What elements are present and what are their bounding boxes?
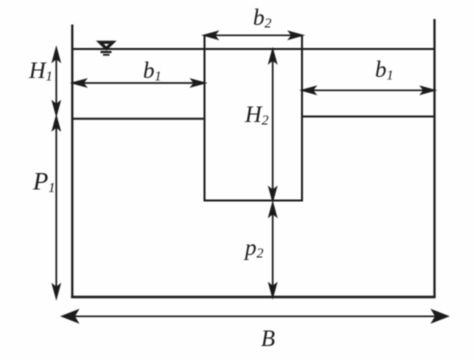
svg-text:H1: H1 <box>28 58 53 85</box>
dimension b1 left <box>73 80 204 87</box>
left tank wall <box>71 25 73 298</box>
left crest line <box>72 118 205 120</box>
dimension H1 <box>53 49 60 115</box>
right tank wall <box>433 19 435 298</box>
svg-text:b1: b1 <box>375 57 394 84</box>
svg-text:H2: H2 <box>244 102 269 129</box>
dimension B <box>63 311 448 323</box>
water level symbol <box>100 42 113 55</box>
dimension H2 <box>269 50 276 200</box>
dimension p2 <box>269 204 276 297</box>
tank bottom <box>71 296 436 299</box>
svg-text:b2: b2 <box>253 5 272 32</box>
svg-text:P1: P1 <box>32 169 55 197</box>
svg-text:B: B <box>261 326 275 351</box>
center notch box right side <box>301 35 303 201</box>
water surface line <box>72 48 435 50</box>
dimension b2 line <box>205 32 303 39</box>
dimension b1 right <box>303 87 435 94</box>
right crest line <box>302 116 435 118</box>
center notch box left side <box>204 35 206 201</box>
dimension P1 <box>53 117 60 298</box>
svg-text:b1: b1 <box>143 58 162 85</box>
center notch box bottom <box>204 200 304 202</box>
svg-text:p2: p2 <box>243 235 264 262</box>
